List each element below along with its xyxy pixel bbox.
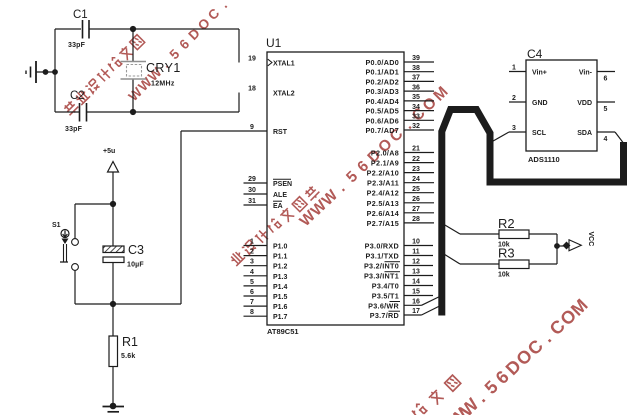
- svg-text:S1: S1: [52, 222, 61, 229]
- svg-text:1: 1: [250, 239, 254, 246]
- svg-text:7: 7: [250, 299, 254, 306]
- svg-text:+5u: +5u: [103, 148, 115, 155]
- wire P3.6 to bus diagonal: [422, 297, 439, 305]
- svg-text:3: 3: [250, 259, 254, 266]
- wire RST net: [180, 131, 182, 304]
- wire bottom (C2/crystal to XTAL2): [55, 111, 79, 113]
- svg-text:30: 30: [248, 187, 256, 194]
- svg-text:P1.1: P1.1: [273, 254, 288, 261]
- U1 pin 7 P1.6: [244, 299, 288, 311]
- svg-text:C4: C4: [527, 47, 543, 61]
- svg-text:19: 19: [248, 56, 256, 63]
- svg-text:AT89C51: AT89C51: [267, 327, 299, 336]
- U1 pin 25 P2.4/A12: [367, 186, 434, 198]
- svg-text:R3: R3: [498, 246, 515, 261]
- ground (crystal): [35, 61, 37, 83]
- svg-text:ADS1110: ADS1110: [528, 155, 560, 164]
- svg-text:PSEN: PSEN: [273, 181, 292, 188]
- svg-text:P3.4/T0: P3.4/T0: [372, 282, 399, 291]
- U1 pin 31 EA: [244, 198, 283, 210]
- U1 pin 32 P0.7/AD7: [365, 123, 434, 135]
- U1 pin 26 P2.5/A13: [367, 196, 434, 208]
- U1 pin 22 P2.1/A9: [371, 156, 434, 168]
- svg-text:P1.0: P1.0: [273, 244, 288, 251]
- U1 pin 29 PSEN: [244, 176, 293, 188]
- svg-text:Vin-: Vin-: [579, 70, 593, 77]
- svg-text:P2.2/A10: P2.2/A10: [367, 169, 399, 178]
- svg-text:P3.5/T1: P3.5/T1: [372, 292, 399, 301]
- node: VCC junction: [554, 243, 560, 249]
- svg-text:10k: 10k: [498, 272, 510, 279]
- node: crystal top junction: [130, 26, 136, 32]
- svg-text:27: 27: [412, 206, 420, 213]
- op-amp U1 AT89C51 body: [267, 52, 404, 325]
- svg-text:10: 10: [412, 239, 420, 246]
- svg-text:P2.5/A13: P2.5/A13: [367, 199, 399, 208]
- U1 pin 9 RST: [250, 124, 288, 136]
- svg-text:5: 5: [250, 279, 254, 286]
- U1 pin 13 P3.3/INT1: [364, 269, 433, 281]
- svg-text:P2.4/A12: P2.4/A12: [367, 189, 399, 198]
- svg-text:P0.1/AD1: P0.1/AD1: [365, 68, 399, 77]
- svg-text:6: 6: [250, 289, 254, 296]
- resistor R3 10k: [442, 253, 461, 265]
- svg-text:P0.5/AD5: P0.5/AD5: [365, 107, 399, 116]
- svg-text:XTAL2: XTAL2: [273, 91, 295, 98]
- crystal CRY1 (Y1 12MHz): [132, 29, 134, 62]
- svg-text:P0.4/AD4: P0.4/AD4: [365, 97, 399, 106]
- svg-text:26: 26: [412, 196, 420, 203]
- op-amp C4 ADS1110 body: [526, 60, 597, 151]
- svg-text:32: 32: [412, 123, 420, 130]
- svg-text:U1: U1: [266, 36, 282, 50]
- svg-text:C2: C2: [70, 90, 85, 102]
- capacitor C2: [79, 103, 81, 122]
- svg-text:22: 22: [412, 156, 420, 163]
- svg-text:P0.2/AD2: P0.2/AD2: [365, 77, 399, 86]
- U1 pin 28 P2.7/A15: [367, 216, 434, 228]
- svg-text:C1: C1: [73, 9, 88, 21]
- C4 pin 1 Vin+: [509, 65, 547, 77]
- svg-text:EA: EA: [273, 203, 283, 210]
- svg-text:5: 5: [604, 106, 608, 113]
- C4 pin 4 SDA: [577, 130, 615, 143]
- svg-text:23: 23: [412, 166, 420, 173]
- U1 pin 27 P2.6/A14: [367, 206, 434, 218]
- U1 pin 12 P3.2/INT0: [364, 259, 433, 271]
- svg-text:P3.6/WR: P3.6/WR: [368, 301, 399, 310]
- svg-text:P0.7/AD7: P0.7/AD7: [365, 126, 399, 135]
- wire SCL diagonal: [491, 132, 510, 143]
- svg-text:P2.3/A11: P2.3/A11: [367, 179, 399, 188]
- svg-text:36: 36: [412, 84, 420, 91]
- wire S1 branch bottom: [74, 271, 76, 305]
- C4 pin 6 Vin-: [579, 70, 615, 83]
- svg-text:P3.1/TXD: P3.1/TXD: [365, 252, 399, 261]
- svg-text:8: 8: [250, 309, 254, 316]
- svg-text:P1.6: P1.6: [273, 304, 288, 311]
- U1 pin 3 P1.2: [244, 259, 288, 271]
- C4 pin 3 SCL: [509, 125, 547, 137]
- svg-text:P0.3/AD3: P0.3/AD3: [365, 87, 399, 96]
- svg-text:17: 17: [412, 308, 420, 315]
- svg-text:4: 4: [250, 269, 254, 276]
- wire top (C1/crystal to XTAL1): [55, 28, 81, 30]
- svg-text:P3.2/INT0: P3.2/INT0: [364, 262, 399, 271]
- svg-text:Vin+: Vin+: [532, 70, 547, 77]
- svg-text:P0.0/AD0: P0.0/AD0: [365, 58, 399, 67]
- svg-text:P0.6/AD6: P0.6/AD6: [365, 116, 399, 125]
- svg-text:SDA: SDA: [577, 130, 592, 137]
- svg-text:12MHz: 12MHz: [151, 81, 175, 88]
- svg-text:33pF: 33pF: [68, 42, 86, 49]
- wire P3.7 to bus diagonal: [422, 307, 439, 316]
- svg-text:28: 28: [412, 216, 420, 223]
- svg-text:25: 25: [412, 186, 420, 193]
- U1 pin 30 ALE: [244, 187, 288, 199]
- svg-text:P1.7: P1.7: [273, 314, 288, 321]
- U1 pin 39 P0.0/AD0: [365, 55, 434, 67]
- svg-text:R2: R2: [498, 216, 515, 231]
- svg-text:4: 4: [604, 136, 608, 143]
- svg-text:18: 18: [248, 86, 256, 93]
- U1 pin 34 P0.5/AD5: [365, 104, 434, 116]
- U1 pin 19 XTAL1: [248, 56, 295, 68]
- U1 pin 24 P2.3/A11: [367, 176, 434, 188]
- svg-text:33: 33: [412, 114, 420, 121]
- node: C3 bottom junction: [110, 301, 116, 307]
- capacitor C1: [82, 20, 84, 39]
- U1 pin 1 P1.0: [244, 239, 288, 251]
- ground (R1): [110, 403, 117, 410]
- resistor R2 10k: [442, 223, 461, 234]
- wire thick I2C bus (freehand): [442, 110, 624, 316]
- U1 pin 10 P3.0/RXD: [365, 239, 433, 251]
- node: ground tap junctions: [43, 69, 49, 75]
- svg-text:2: 2: [250, 249, 254, 256]
- svg-text:35: 35: [412, 94, 420, 101]
- svg-text:P3.7/RD: P3.7/RD: [370, 311, 399, 320]
- U1 pin 17 P3.7/RD: [370, 308, 422, 320]
- svg-text:1: 1: [512, 65, 516, 72]
- svg-text:6: 6: [604, 76, 608, 83]
- U1 pin 18 XTAL2: [248, 86, 295, 98]
- svg-text:33pF: 33pF: [65, 126, 83, 133]
- U1 pin 2 P1.1: [244, 249, 288, 261]
- U1 pin 21 P2.0/A8: [371, 146, 434, 158]
- U1 pin 37 P0.2/AD2: [365, 75, 434, 87]
- wire bottom horizontal to RST vertical: [75, 303, 181, 305]
- U1 pin 11 P3.1/TXD: [365, 249, 433, 261]
- svg-text:P1.2: P1.2: [273, 264, 288, 271]
- U1 pin 4 P1.3: [244, 269, 288, 281]
- node: crystal bottom junction: [130, 109, 136, 115]
- svg-text:R1: R1: [122, 335, 138, 349]
- U1 pin 38 P0.1/AD1: [365, 65, 434, 77]
- svg-text:P3.0/RXD: P3.0/RXD: [365, 242, 399, 251]
- svg-text:38: 38: [412, 65, 420, 72]
- svg-text:ALE: ALE: [273, 192, 287, 199]
- svg-text:10µF: 10µF: [127, 262, 144, 269]
- resistor R1 5.6k: [112, 304, 114, 336]
- svg-text:37: 37: [412, 75, 420, 82]
- svg-text:29: 29: [248, 176, 256, 183]
- U1 pin 16 P3.6/WR: [368, 299, 421, 311]
- U1 pin 14 P3.4/T0: [372, 279, 433, 291]
- svg-text:15: 15: [412, 289, 420, 296]
- U1 pin 33 P0.6/AD6: [365, 114, 434, 126]
- svg-text:16: 16: [412, 299, 420, 306]
- C4 pin 5 VDD: [577, 100, 615, 113]
- svg-text:21: 21: [412, 146, 420, 153]
- U1 pin 35 P0.4/AD4: [365, 94, 434, 106]
- svg-text:SCL: SCL: [532, 130, 547, 137]
- svg-text:P2.1/A9: P2.1/A9: [371, 159, 399, 168]
- svg-text:P2.6/A14: P2.6/A14: [367, 209, 399, 218]
- U1 pin 5 P1.4: [244, 279, 288, 291]
- svg-text:VCC: VCC: [587, 232, 594, 247]
- svg-text:3: 3: [512, 125, 516, 132]
- svg-text:XTAL1: XTAL1: [273, 61, 295, 68]
- svg-text:2: 2: [512, 95, 516, 102]
- svg-text:34: 34: [412, 104, 420, 111]
- C4 pin 2 GND: [509, 95, 548, 107]
- U1 pin 15 P3.5/T1: [372, 289, 433, 301]
- svg-text:P2.7/A15: P2.7/A15: [367, 219, 399, 228]
- svg-text:13: 13: [412, 269, 420, 276]
- svg-text:CRY1: CRY1: [146, 61, 181, 75]
- svg-text:GND: GND: [532, 100, 548, 107]
- power VCC: [557, 245, 565, 247]
- svg-text:39: 39: [412, 55, 420, 62]
- svg-text:24: 24: [412, 176, 420, 183]
- svg-text:11: 11: [412, 249, 420, 256]
- svg-text:P1.3: P1.3: [273, 274, 288, 281]
- svg-text:P1.4: P1.4: [273, 284, 288, 291]
- wire S1 branch top: [75, 203, 113, 205]
- svg-text:C3: C3: [128, 243, 144, 257]
- wire R2/R3 join: [556, 234, 558, 264]
- U1 pin 6 P1.5: [244, 289, 288, 301]
- svg-text:P1.5: P1.5: [273, 294, 288, 301]
- svg-text:5.6k: 5.6k: [121, 353, 135, 360]
- svg-text:P2.0/A8: P2.0/A8: [371, 149, 399, 158]
- node: +5u / S1 junction: [110, 201, 116, 207]
- wire SDA diagonal: [615, 132, 623, 143]
- U1 pin 8 P1.7: [244, 309, 288, 321]
- svg-text:RST: RST: [273, 129, 288, 136]
- U1 pin 23 P2.2/A10: [367, 166, 434, 178]
- svg-text:9: 9: [250, 124, 254, 131]
- wire left vertical: [54, 29, 56, 112]
- svg-text:14: 14: [412, 279, 420, 286]
- svg-text:31: 31: [248, 198, 256, 205]
- svg-text:P3.3/INT1: P3.3/INT1: [364, 272, 399, 281]
- svg-text:12: 12: [412, 259, 420, 266]
- svg-text:VDD: VDD: [577, 100, 592, 107]
- U1 pin 36 P0.3/AD3: [365, 84, 434, 96]
